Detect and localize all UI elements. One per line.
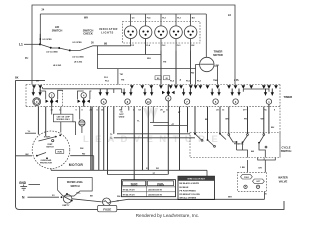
- cycle switch contact c: [219, 133, 226, 140]
- svg-text:HH 44 2 R 2H: HH 44 2 R 2H: [123, 194, 135, 197]
- indicator lights dashed box: [123, 22, 201, 44]
- svg-text:PROTECTOR: PROTECTOR: [40, 162, 52, 164]
- wire valve feed b: [264, 160, 266, 172]
- wire label FU: [25, 57, 28, 60]
- svg-text:WH: WH: [117, 196, 121, 198]
- pin label 16: [101, 110, 104, 112]
- connector 3: [231, 89, 241, 105]
- wire label 24: [42, 9, 45, 12]
- label BK fuse: [90, 196, 93, 198]
- svg-text:LB 0.39Ω: LB 0.39Ω: [53, 65, 62, 67]
- capacitor C1: [79, 120, 85, 126]
- pin label 5: [97, 110, 99, 112]
- wire light3 drop: [161, 51, 166, 85]
- wire motor to bottom: [50, 169, 52, 171]
- terminal 4 box: [258, 157, 276, 160]
- GND terminal: [19, 181, 40, 185]
- ground symbol: [20, 185, 27, 191]
- water valve dashed box: [238, 172, 267, 191]
- svg-text:RD: RD: [82, 153, 86, 155]
- dashed boundary left edge: [25, 85, 27, 107]
- plug contact at x=190.8: [189, 85, 193, 89]
- wire motor drop a: [37, 107, 39, 135]
- wire label BK top-left of enclosure: [15, 77, 19, 80]
- label PP AB BK: [234, 143, 244, 146]
- svg-text:LID CLOSED: LID CLOSED: [72, 57, 84, 59]
- wire cap bottom: [81, 126, 83, 133]
- cycle switch contact d: [228, 134, 238, 143]
- label FL5 band2: [186, 80, 191, 82]
- dashed console boundary lower: [26, 106, 280, 108]
- motor start winding: [39, 134, 62, 141]
- connector 0: [32, 89, 42, 106]
- pin label U7: [139, 110, 142, 112]
- label A band: [180, 79, 182, 82]
- switch check S2: [58, 46, 131, 52]
- indicator light PL2: [139, 14, 152, 55]
- wire stub 128: [128, 107, 130, 111]
- svg-text:SWITCH: SWITCH: [70, 186, 79, 188]
- wire cap to motor a: [60, 122, 62, 133]
- svg-text:WH ALL OTHERS: WH ALL OTHERS: [180, 197, 197, 200]
- band bus wire: [43, 87, 122, 93]
- label WH bottom: [117, 196, 232, 199]
- pin label 12: [59, 110, 62, 112]
- wire light4 drop: [175, 51, 177, 85]
- wire TM right leg: [214, 66, 218, 85]
- svg-text:1 BU: 1 BU: [240, 167, 245, 169]
- pin label 7A: [264, 109, 267, 112]
- right table row 5: [180, 197, 197, 200]
- label TM band1: [121, 79, 124, 81]
- connector 2: [46, 93, 58, 107]
- plug contact at x=263.8: [262, 85, 266, 89]
- label light bottom FL2: [162, 45, 166, 47]
- wire cycle drop 263: [261, 107, 265, 134]
- water valve solenoid hot: [253, 179, 265, 183]
- connector 8: [122, 89, 132, 105]
- label FILL: [77, 192, 82, 194]
- wire motor drop b: [45, 107, 47, 136]
- label lid closed 1: [46, 51, 58, 53]
- plug contact at x=170.7: [169, 85, 173, 89]
- svg-text:TIMER: TIMER: [284, 95, 293, 99]
- motor overload protector: [36, 153, 52, 165]
- label 4T: [172, 123, 175, 126]
- plug contact at x=269: [267, 85, 271, 89]
- fuse F1: [103, 198, 111, 206]
- wire label 2A: [228, 14, 231, 17]
- plug contact at x=181.1: [179, 85, 183, 89]
- label switch check: [83, 28, 94, 35]
- wire center drop 153: [152, 107, 154, 123]
- plug contact at x=176: [174, 85, 178, 89]
- connector 7: [182, 89, 192, 105]
- left table row separator: [122, 180, 176, 197]
- boxed label 20: [163, 76, 169, 80]
- label TIMER: [284, 95, 293, 99]
- cycle switch contact b: [207, 139, 216, 147]
- wire drop TM: [104, 69, 123, 85]
- svg-text:CYCLE: CYCLE: [281, 146, 290, 150]
- label 27: [163, 112, 166, 114]
- motor run box: [56, 150, 64, 154]
- right table row 1: [180, 182, 200, 185]
- connector 6: [99, 89, 109, 105]
- left table row 1: [123, 189, 162, 192]
- svg-text:RUN: RUN: [58, 152, 63, 154]
- pin label 9: [76, 110, 78, 112]
- wire fuse right: [111, 199, 265, 202]
- band wire bend a: [40, 89, 45, 100]
- svg-text:TM: TM: [121, 79, 124, 81]
- wire center drop 148: [147, 107, 149, 171]
- wire center drop 103: [103, 107, 105, 171]
- watermark text: [83, 134, 220, 145]
- label light top FL3: [177, 18, 181, 20]
- cabinet enclosure left/bottom border: [16, 80, 285, 209]
- label not used: [119, 112, 125, 119]
- svg-text:HH 44 2 R 2H: HH 44 2 R 2H: [123, 189, 135, 192]
- pin label 18: [119, 110, 122, 112]
- wire WLS to fuse: [72, 199, 102, 202]
- wire cap drop a: [51, 107, 53, 115]
- pin label 32: [51, 110, 54, 112]
- wire center drop 114: [113, 107, 115, 134]
- wire timer motor feed: [205, 14, 207, 57]
- wire TM left leg RD: [191, 65, 200, 85]
- label DR: [259, 168, 263, 170]
- connector 9: [162, 85, 175, 102]
- timer dashed right edge: [279, 85, 281, 158]
- water level switch contacts: [61, 193, 73, 203]
- cycle switch contact e: [242, 134, 249, 144]
- label FL4 band: [170, 79, 175, 82]
- cycle switch contact a: [194, 133, 203, 141]
- svg-text:DR: DR: [259, 168, 263, 170]
- wire cycle drop 247: [244, 107, 248, 134]
- svg-text:MODEL: MODEL: [157, 183, 164, 185]
- svg-text:TIMER: TIMER: [214, 50, 223, 54]
- svg-text:INDICATOR: INDICATOR: [99, 27, 118, 31]
- wire bottom bus 170: [51, 168, 207, 176]
- wire cap to motor b: [73, 122, 76, 135]
- footer credit: [136, 213, 200, 218]
- wire light2 drop WH: [146, 39, 151, 60]
- plug contact at x=243.3: [241, 85, 245, 89]
- wire valve feed a: [247, 160, 249, 172]
- plug contact at x=142.3: [140, 85, 144, 89]
- right table row 3: [180, 190, 197, 192]
- label YL mid: [137, 121, 140, 123]
- left table frame: [122, 180, 176, 197]
- connector 5: [211, 89, 221, 105]
- wire cycle drop 228: [226, 107, 230, 134]
- svg-text:LAT2300 A•E W: LAT2300 A•E W: [148, 189, 162, 192]
- dashed boundary mid edge: [62, 90, 64, 107]
- label light top BU: [192, 18, 195, 20]
- wire center drop 195: [194, 107, 196, 135]
- wire mid horizontal b: [153, 125, 187, 127]
- wire YL into motor: [25, 132, 36, 134]
- band wire bend c: [78, 91, 92, 99]
- wire BK into motor: [16, 155, 33, 157]
- right table row 4: [180, 194, 201, 196]
- water valve thermo circles: [244, 185, 260, 188]
- wire RD out of motor: [70, 153, 94, 155]
- plug contact at x=161: [159, 85, 163, 89]
- wire cap drop c: [79, 107, 81, 120]
- svg-text:LAT2500 A•E W: LAT2500 A•E W: [148, 194, 162, 197]
- label resistance 2: [74, 62, 83, 64]
- capacitor note box: [53, 114, 73, 122]
- plug contact at x=276: [274, 85, 278, 89]
- label MOTOR: [69, 163, 84, 167]
- svg-text:COLD: COLD: [244, 177, 250, 179]
- pin label 2TT: [243, 110, 247, 112]
- right table frame: [178, 176, 215, 199]
- svg-text:LID CLOSED: LID CLOSED: [46, 51, 58, 53]
- svg-text:LID OPEN: LID OPEN: [43, 39, 53, 41]
- pin label 8: [82, 110, 84, 112]
- wire center drop 142: [142, 107, 144, 171]
- wire cycle drop 269: [269, 104, 275, 134]
- svg-text:WH: WH: [228, 197, 232, 199]
- label EMPTY: [63, 205, 71, 207]
- wire bus y68: [97, 68, 195, 70]
- label resistance 1: [53, 65, 62, 67]
- pin label 2A: [90, 109, 93, 112]
- plug contact at x=151.3: [149, 85, 153, 89]
- water level switch outline: [58, 178, 93, 197]
- wire bottom bus 174: [108, 173, 168, 175]
- svg-text:LID OPEN: LID OPEN: [73, 42, 83, 44]
- wire center drop 207: [207, 107, 209, 140]
- left table header cells: [123, 181, 174, 187]
- indicator light PL4: [170, 14, 183, 85]
- band wire bend b: [58, 90, 63, 99]
- svg-text:SWITCH: SWITCH: [281, 149, 292, 153]
- indicator light PL5: [184, 14, 197, 85]
- wire main top feed L1 bus: [32, 5, 235, 85]
- label 9B: [104, 43, 107, 46]
- motor dashed circle: [32, 131, 70, 169]
- svg-text:MOTOR: MOTOR: [213, 53, 223, 57]
- label light bottom FL4: [146, 44, 150, 47]
- label water valve: [278, 176, 288, 184]
- plug contact at x=200.4: [199, 85, 203, 89]
- plug contact at x=229: [227, 85, 231, 89]
- label lid closed 2: [72, 57, 84, 59]
- wire RD down: [93, 156, 95, 171]
- label light top FL4: [147, 17, 151, 20]
- wire valve to bottom: [264, 192, 266, 200]
- wire center drop 179: [179, 107, 181, 171]
- wire bus y54: [97, 46, 161, 69]
- label TM: [216, 65, 219, 67]
- svg-text:WIRE COLOR KEY: WIRE COLOR KEY: [187, 179, 205, 181]
- plug contact at x=235.5: [234, 85, 238, 89]
- wire center drop 99: [98, 107, 100, 171]
- label lid open 1: [43, 39, 53, 41]
- svg-text:LB 0.39Ω: LB 0.39Ω: [74, 62, 83, 64]
- water valve solenoid cold: [241, 175, 253, 179]
- plug contact at x=207.5: [206, 85, 210, 89]
- label YL motor: [28, 131, 31, 133]
- label 23 left: [52, 195, 55, 197]
- svg-text:CHECK: CHECK: [83, 32, 93, 36]
- wire center drop 187: [187, 107, 189, 133]
- dashed console boundary upper: [26, 84, 280, 86]
- svg-text:FU: FU: [25, 57, 28, 60]
- label light bottom U3: [131, 45, 134, 47]
- right table header: [178, 176, 215, 181]
- label AB right: [251, 150, 254, 153]
- label lid switch: [52, 25, 63, 32]
- svg-text:BU BLUE: BU BLUE: [180, 187, 190, 189]
- svg-text:L1: L1: [19, 43, 23, 47]
- pin label U9: [160, 110, 163, 112]
- label lid open 2: [73, 42, 83, 44]
- svg-text:RD BRIGHT COLORS: RD BRIGHT COLORS: [180, 194, 201, 196]
- svg-text:MOTOR: MOTOR: [131, 183, 138, 185]
- indicator light PL3: [155, 14, 168, 85]
- svg-text:MOTOR: MOTOR: [69, 163, 84, 167]
- svg-text:BK: BK: [15, 77, 19, 80]
- indicator light PL1: [124, 14, 137, 46]
- svg-text:RD: RD: [191, 73, 195, 75]
- label 1 BU: [240, 167, 245, 169]
- wire cap drop b: [60, 107, 62, 115]
- svg-text:9B: 9B: [36, 81, 39, 83]
- wire center drop 107: [107, 107, 109, 175]
- cycle switch contact f: [258, 134, 267, 148]
- plug contact at x=34: [32, 85, 36, 89]
- wire stub 121: [121, 107, 123, 111]
- left table row 2: [123, 194, 162, 197]
- svg-text:BK: BK: [226, 119, 230, 121]
- wire TL long: [110, 134, 190, 136]
- pin label 13: [222, 110, 225, 112]
- inner top wire WH: [40, 14, 206, 20]
- connector 10: [143, 89, 153, 105]
- timer motor TM: [200, 57, 214, 71]
- svg-text:TM: TM: [163, 62, 166, 64]
- wire light5 drop: [190, 51, 192, 85]
- svg-text:PK: PK: [244, 119, 247, 121]
- label timer motor: [213, 50, 223, 58]
- right table row 2: [180, 187, 190, 189]
- label 30: [91, 41, 94, 44]
- label FL3 band: [197, 80, 202, 82]
- svg-text:SWITCH: SWITCH: [52, 28, 63, 32]
- svg-text:PK PUSH PRESS: PK PUSH PRESS: [180, 190, 197, 192]
- label 20: [265, 193, 268, 195]
- svg-text:2 PL: 2 PL: [234, 79, 240, 82]
- svg-text:WH: WH: [80, 148, 84, 150]
- svg-text:9B: 9B: [104, 43, 107, 46]
- svg-text:WH: WH: [84, 17, 88, 20]
- label 9T: [178, 112, 181, 114]
- plug contact at x=131.9: [130, 85, 134, 89]
- cycle sw lower wires: [237, 142, 266, 158]
- label TM8 band: [213, 80, 218, 82]
- label FL5 band1: [105, 80, 110, 82]
- label cycle switch: [281, 146, 292, 154]
- svg-text:WATER LEVEL: WATER LEVEL: [67, 181, 84, 184]
- svg-text:TM: TM: [120, 74, 123, 76]
- svg-text:RO: RO: [156, 168, 159, 170]
- motor cent switch: [46, 140, 54, 149]
- plug contact at x=217.6: [216, 85, 220, 89]
- label water level switch: [67, 181, 84, 188]
- watermark logo: [143, 107, 158, 119]
- label FUSE: [98, 205, 117, 211]
- timer jumper wire: [243, 89, 269, 92]
- pin label 4: [133, 109, 135, 112]
- connector 4: [78, 93, 90, 107]
- label light bottom FL3: [177, 45, 181, 47]
- pin label 13: [166, 110, 169, 112]
- label BR: [205, 119, 208, 121]
- svg-text:BU: BU: [271, 127, 275, 129]
- boxed label 80: [155, 76, 161, 80]
- svg-text:VALVE: VALVE: [279, 179, 288, 183]
- plug contact at x=195.6: [194, 85, 198, 89]
- wire center drop 91 double: [91, 107, 92, 171]
- plug contact at x=251.3: [249, 85, 253, 89]
- svg-text:SWITCH: SWITCH: [46, 146, 54, 148]
- wire center drop 168: [167, 101, 169, 175]
- svg-text:LIGHTS: LIGHTS: [101, 31, 114, 35]
- label 9B band: [36, 81, 39, 83]
- svg-text:WH: WH: [261, 119, 265, 121]
- N terminal: [22, 195, 59, 199]
- label WH motor: [80, 148, 84, 150]
- svg-text:WATER: WATER: [278, 176, 288, 180]
- svg-text:2A: 2A: [228, 14, 231, 17]
- label 2 PL band: [234, 79, 240, 82]
- svg-text:USED: USED: [119, 116, 125, 118]
- label BK motor: [26, 154, 30, 156]
- pin label 8: [274, 110, 276, 112]
- svg-text:MODELS ONLY: MODELS ONLY: [57, 119, 71, 121]
- svg-text:Rendered by LeadVenture, Inc.: Rendered by LeadVenture, Inc.: [136, 213, 200, 218]
- label light top FL2: [162, 18, 166, 20]
- wire switch-check feed 24 up: [39, 14, 41, 44]
- pin label U3: [216, 110, 219, 112]
- lid switch S1: [40, 38, 60, 49]
- label light top U3: [132, 18, 135, 20]
- wire TL2: [110, 138, 195, 140]
- cycle switch dashed box: [190, 133, 280, 158]
- wire center drop 220: [219, 107, 221, 134]
- svg-text:WH: WH: [147, 58, 151, 60]
- plug contact at x=40.3: [38, 85, 42, 89]
- label indicator lights: [99, 27, 118, 35]
- svg-text:EMPTY: EMPTY: [63, 205, 71, 207]
- connector 1: [264, 89, 274, 105]
- svg-text:GND: GND: [19, 181, 27, 185]
- wire mid horizontal a: [150, 122, 169, 124]
- label light bottom BU: [191, 45, 194, 47]
- wire center drop 134: [133, 107, 135, 180]
- wire motor feed 1: [33, 85, 35, 89]
- svg-text:FUSE: FUSE: [103, 207, 111, 211]
- terminal L1: [19, 43, 41, 47]
- svg-text:BK BLACK & WHITE: BK BLACK & WHITE: [180, 182, 200, 185]
